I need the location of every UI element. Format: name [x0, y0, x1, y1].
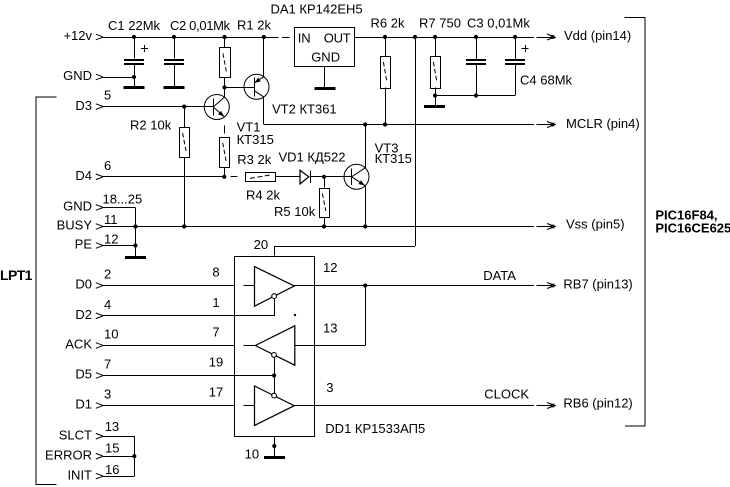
- svg-text:PE: PE: [75, 237, 93, 252]
- svg-text:MCLR (pin4): MCLR (pin4): [566, 116, 640, 131]
- svg-text:R6 2k: R6 2k: [371, 16, 405, 31]
- svg-text:D5: D5: [75, 367, 92, 382]
- svg-text:GND: GND: [63, 68, 92, 83]
- svg-text:VD1 КД522: VD1 КД522: [279, 149, 346, 164]
- svg-text:17: 17: [209, 385, 223, 400]
- svg-text:Vss (pin5): Vss (pin5): [566, 216, 625, 231]
- svg-text:C3 0,01Mk: C3 0,01Mk: [467, 16, 530, 31]
- svg-text:PIC16CE625: PIC16CE625: [655, 220, 730, 235]
- svg-text:C2 0,01Mk: C2 0,01Mk: [170, 18, 231, 33]
- svg-text:7: 7: [212, 325, 219, 340]
- svg-text:13: 13: [105, 419, 119, 434]
- svg-text:20: 20: [254, 237, 268, 252]
- svg-text:13: 13: [323, 321, 337, 336]
- svg-text:3: 3: [326, 380, 333, 395]
- svg-text:16: 16: [105, 462, 119, 477]
- svg-text:D1: D1: [75, 397, 92, 412]
- svg-text:DA1 КР142ЕН5: DA1 КР142ЕН5: [271, 2, 363, 17]
- svg-text:7: 7: [104, 357, 111, 372]
- svg-text:DATA: DATA: [483, 268, 516, 283]
- svg-text:12: 12: [323, 260, 337, 275]
- svg-text:КТ315: КТ315: [237, 132, 274, 147]
- svg-text:8: 8: [212, 265, 219, 280]
- svg-text:18...25: 18...25: [103, 192, 143, 207]
- svg-text:R4 2k: R4 2k: [246, 188, 280, 203]
- svg-text:RB7 (pin13): RB7 (pin13): [563, 277, 632, 292]
- svg-text:BUSY: BUSY: [57, 218, 93, 233]
- svg-text:3: 3: [104, 387, 111, 402]
- svg-text:R2 10k: R2 10k: [130, 118, 172, 133]
- svg-text:ERROR: ERROR: [45, 447, 92, 462]
- svg-text:C1 22Mk: C1 22Mk: [108, 18, 161, 33]
- svg-text:IN: IN: [298, 30, 311, 45]
- svg-text:1: 1: [212, 295, 219, 310]
- svg-text:R5 10k: R5 10k: [274, 204, 316, 219]
- svg-text:R1 2k: R1 2k: [237, 18, 271, 33]
- svg-text:R3 2k: R3 2k: [237, 152, 271, 167]
- svg-text:12: 12: [104, 232, 118, 247]
- svg-text:SLCT: SLCT: [59, 427, 92, 442]
- svg-text:КТ315: КТ315: [375, 151, 412, 166]
- svg-text:15: 15: [105, 440, 119, 455]
- svg-text:+12v: +12v: [63, 28, 92, 43]
- svg-text:ACK: ACK: [65, 337, 92, 352]
- svg-text:D2: D2: [75, 307, 92, 322]
- svg-text:CLOCK: CLOCK: [484, 387, 529, 402]
- svg-text:D0: D0: [75, 277, 92, 292]
- svg-text:DD1 КР1533АП5: DD1 КР1533АП5: [325, 421, 425, 436]
- svg-text:GND: GND: [63, 199, 92, 214]
- svg-text:OUT: OUT: [324, 30, 351, 45]
- svg-text:Vdd (pin14): Vdd (pin14): [564, 28, 631, 43]
- svg-text:VT2 КТ361: VT2 КТ361: [272, 102, 337, 117]
- svg-text:R7 750: R7 750: [419, 16, 461, 31]
- svg-text:RB6 (pin12): RB6 (pin12): [563, 396, 632, 411]
- svg-text:19: 19: [209, 355, 223, 370]
- svg-text:10: 10: [245, 447, 259, 462]
- svg-text:5: 5: [104, 88, 111, 103]
- svg-text:C4 68Mk: C4 68Mk: [520, 72, 573, 87]
- svg-text:LPT1: LPT1: [0, 267, 33, 283]
- svg-text:4: 4: [104, 297, 111, 312]
- svg-text:11: 11: [104, 212, 118, 227]
- svg-text:GND: GND: [311, 50, 340, 65]
- svg-text:10: 10: [104, 327, 118, 342]
- svg-text:D4: D4: [75, 168, 92, 183]
- svg-text:INIT: INIT: [67, 467, 92, 482]
- svg-text:6: 6: [104, 158, 111, 173]
- svg-text:2: 2: [104, 267, 111, 282]
- svg-text:D3: D3: [75, 98, 92, 113]
